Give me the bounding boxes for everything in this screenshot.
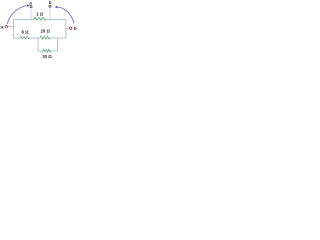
svg-text:b: b [74, 26, 77, 31]
terminal a (left, open circle) [5, 25, 7, 27]
svg-text:30 Ω: 30 Ω [42, 54, 52, 59]
svg-text:20 Ω: 20 Ω [40, 28, 50, 33]
svg-text:a: a [29, 0, 32, 5]
wire: middle row [14, 37, 67, 39]
wire: left terminal stub [8, 8, 69, 51]
wire: bottom row [38, 50, 58, 52]
terminal a top dot [30, 6, 32, 8]
svg-text:8 Ω: 8 Ω [21, 29, 29, 34]
resistor R4 30ohm (bottom) [43, 49, 51, 52]
resistor R2 8ohm (middle left) [20, 36, 30, 39]
svg-text:a: a [1, 24, 4, 29]
arrow: fold left terminal a to top [7, 6, 27, 25]
arrow: fold right terminal b to top [58, 7, 74, 24]
wire: top row right segment [46, 19, 66, 21]
svg-text:1 Ω: 1 Ω [36, 11, 44, 16]
wire: top row left segment [14, 19, 35, 21]
resistor R3 20ohm (middle right) [40, 36, 50, 39]
terminal b (right, open circle) [69, 27, 71, 29]
wire: terminal a top lead [30, 8, 32, 20]
terminal b top dot [49, 5, 51, 7]
wire: left vertical [13, 20, 15, 39]
wire: junction vertical left (node c) [37, 38, 39, 51]
resistor R1 1ohm (top) [34, 17, 46, 20]
svg-text:b: b [49, 0, 52, 5]
wire: terminal b top lead [49, 8, 51, 20]
wire: right vertical [65, 20, 67, 39]
wire: junction vertical right (node d) [57, 38, 59, 51]
wire: right terminal stub [66, 27, 69, 29]
